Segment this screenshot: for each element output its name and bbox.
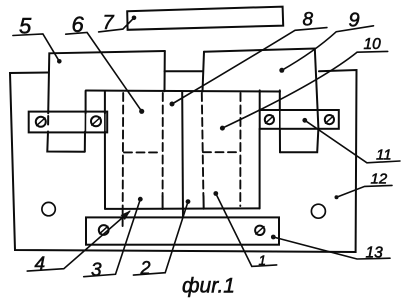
- hole right: [311, 204, 325, 218]
- svg-text:9: 9: [349, 9, 360, 31]
- svg-text:10: 10: [364, 36, 382, 53]
- left block 5: [47, 51, 165, 152]
- screw right: [255, 226, 264, 235]
- long horizontal shelf: [86, 91, 280, 92]
- screw right: [325, 115, 334, 124]
- leader 9: [279, 26, 373, 73]
- svg-text:13: 13: [366, 244, 384, 261]
- right block 9: [203, 49, 319, 153]
- leader 3: [84, 197, 143, 277]
- screw left: [99, 225, 109, 235]
- left screw plate: [29, 112, 108, 133]
- base plate 12: [10, 70, 357, 252]
- leader 12: [335, 185, 393, 199]
- right screw plate: [260, 110, 339, 129]
- top bar 7: [127, 7, 283, 30]
- svg-text:1: 1: [259, 253, 267, 268]
- dashed hidden edge right x=240: [239, 93, 241, 206]
- column right edge lower solid: [203, 196, 205, 209]
- leader 5: [13, 34, 62, 64]
- dashed hidden edge x=162.5: [162, 93, 164, 196]
- svg-text:7: 7: [103, 12, 115, 34]
- column bottom hidden edge: [105, 207, 260, 210]
- svg-text:11: 11: [376, 146, 392, 163]
- right post: [260, 90, 280, 208]
- dashed hidden edge x=201.5: [202, 93, 204, 196]
- screw left: [36, 117, 46, 127]
- leader 7: [99, 15, 137, 31]
- dashed horizontal right y=152: [203, 151, 240, 153]
- hidden (dashed) lines: [123, 93, 241, 226]
- screw right: [91, 116, 101, 126]
- leader 2: [133, 199, 190, 275]
- column left edge lower solid: [162, 196, 164, 209]
- leader 13: [271, 235, 390, 259]
- svg-text:2: 2: [140, 258, 151, 278]
- svg-text:3: 3: [91, 260, 102, 281]
- left post: [85, 91, 105, 209]
- leader 4 with arrow: [27, 212, 129, 272]
- leader 11: [302, 118, 400, 163]
- dashed horizontal left y=152: [124, 151, 161, 153]
- screw left: [265, 115, 274, 124]
- neck bridge: [165, 70, 203, 72]
- leader 10: [220, 51, 388, 130]
- central column center line: [181, 92, 184, 218]
- svg-text:8: 8: [303, 10, 314, 31]
- hole left: [42, 202, 55, 215]
- svg-text:4: 4: [35, 254, 46, 275]
- leader 1: [213, 191, 276, 266]
- svg-text:12: 12: [371, 170, 388, 187]
- leader 8: [170, 28, 327, 107]
- leader 6: [66, 33, 145, 114]
- svg-text:6: 6: [72, 12, 85, 37]
- dashed hidden edge left x=123: [122, 93, 125, 226]
- bottom bar: [86, 217, 279, 244]
- svg-text:5: 5: [19, 14, 32, 39]
- svg-text:фur.1: фur.1: [182, 275, 235, 298]
